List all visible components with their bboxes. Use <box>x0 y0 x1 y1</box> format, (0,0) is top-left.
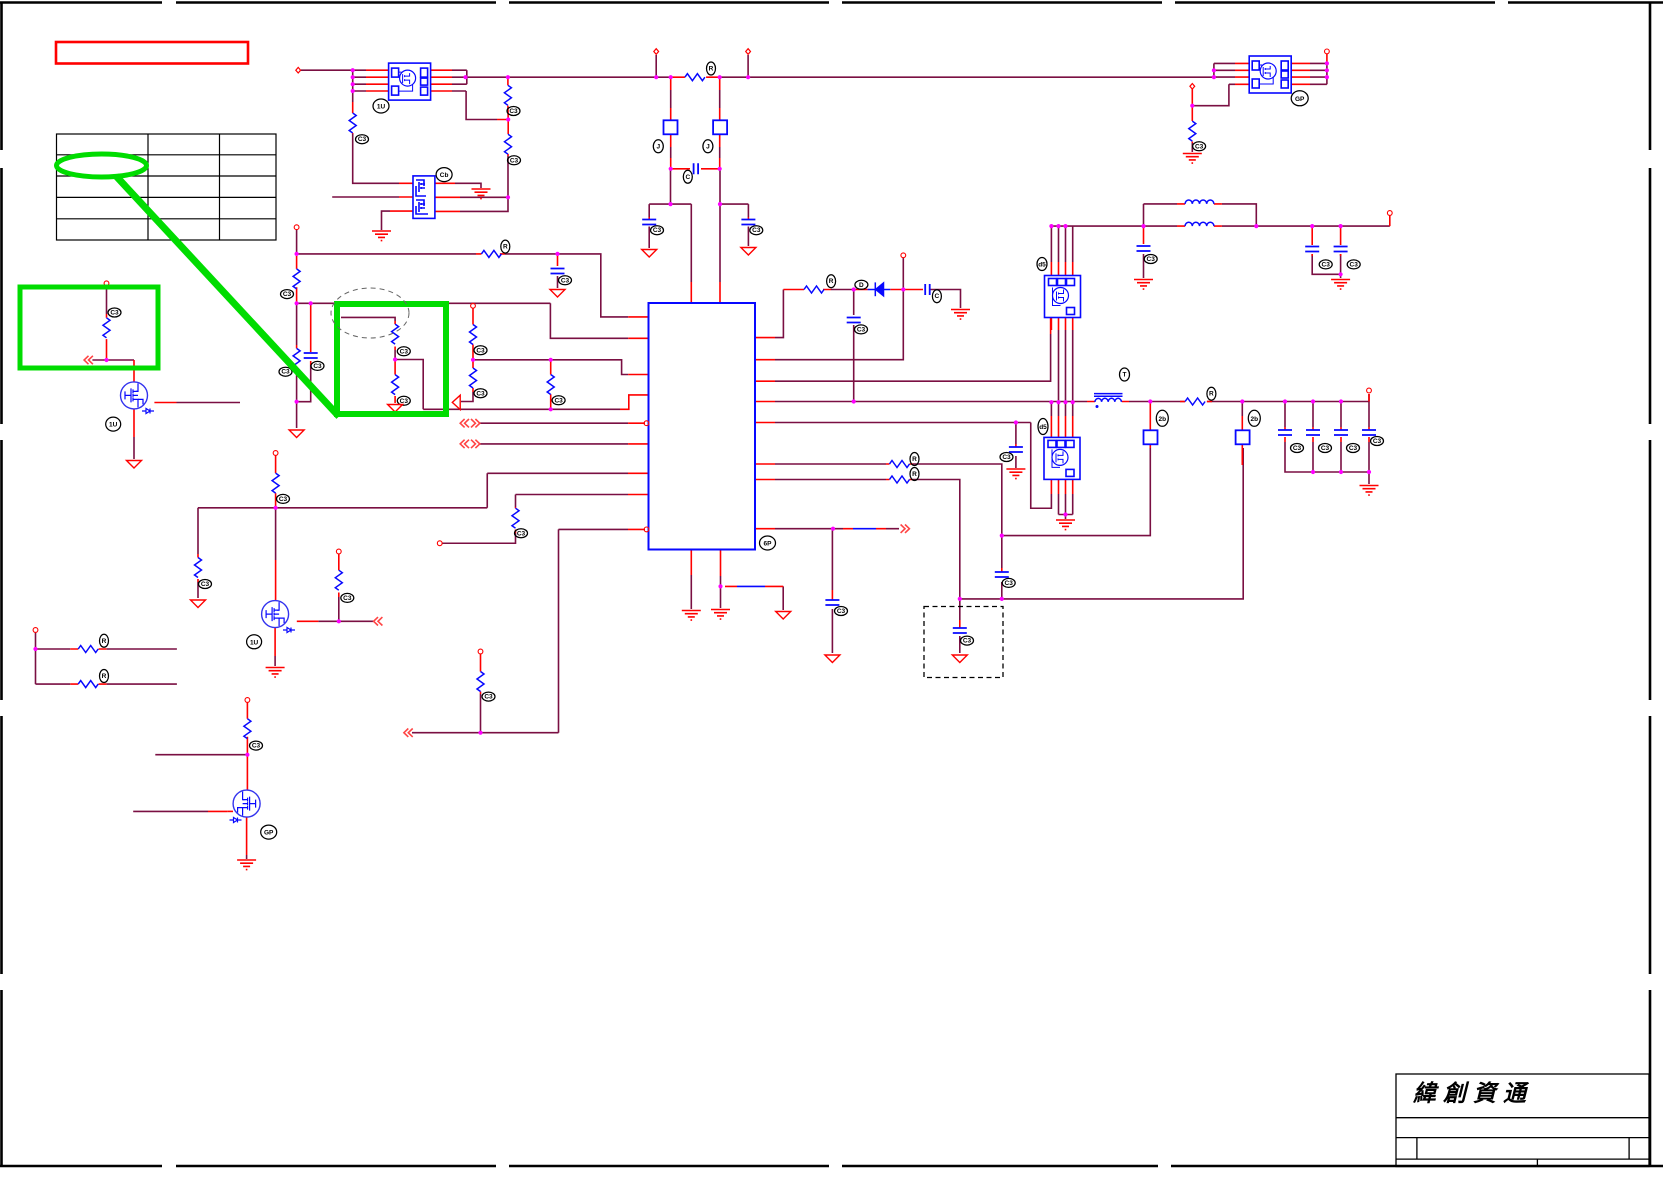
resistor R21 <box>78 681 98 688</box>
wire box5 left tie column <box>1213 63 1215 77</box>
junction (480.5,732.7) <box>478 731 482 735</box>
wire IC bottom pin1 to ground <box>690 575 692 609</box>
wire H9 row 732.7 <box>412 732 559 734</box>
resistor R17 <box>335 570 342 590</box>
capacitor C14 <box>304 353 318 358</box>
red stub pin L9 <box>628 528 645 530</box>
svg-text:C3: C3 <box>857 326 866 333</box>
junction (557.5,253.9) <box>555 252 559 256</box>
junction (275.6,507.8) <box>274 506 278 510</box>
red stubs caps 649/748 <box>649 217 748 219</box>
wire L2 bottom row <box>1076 225 1390 227</box>
red stubs box5 right <box>1292 63 1311 84</box>
junction (507.9,77.2) <box>506 75 510 79</box>
junction (35.5,649) <box>33 647 37 651</box>
wire box5 right tie column <box>1326 63 1328 84</box>
wire C5 column <box>1143 254 1145 278</box>
resistor R26 <box>103 318 110 338</box>
wire bus red-maroon below wireA <box>1051 402 1072 416</box>
IC U1 main controller <box>649 303 756 550</box>
red stub into box2 left <box>390 183 413 211</box>
svg-text:C3: C3 <box>1349 445 1358 452</box>
resistor R24 <box>890 476 910 483</box>
wire H7 row 473.3 <box>487 473 628 508</box>
red stubs 508 resistor chain <box>497 77 508 156</box>
jumper J3 <box>1144 430 1158 444</box>
junction (1326.9,70.3) <box>1325 68 1329 72</box>
wire A main row 401.5 <box>775 401 1087 403</box>
red stubs R_r col <box>338 554 340 597</box>
resistor R11 <box>547 375 554 395</box>
red stubs col 473 <box>472 309 474 393</box>
red stub Q2 source <box>274 628 276 656</box>
wire C4 column <box>1015 423 1017 469</box>
ground triangle C9 dashed box <box>952 655 967 663</box>
terminal circle R22 left <box>437 541 442 546</box>
svg-text:C3: C3 <box>510 157 519 164</box>
wire col 296.6 between resistors <box>296 303 298 345</box>
ground earth under box2 left <box>372 231 391 241</box>
wire row4 jog down to resistor column <box>466 91 497 120</box>
resistor R10 <box>293 348 300 368</box>
junction (247.4,754.7) <box>245 753 249 757</box>
red stub IC pin L8 <box>628 494 649 496</box>
red stub IC pin R4 <box>755 401 775 403</box>
capacitor C10 <box>825 600 839 605</box>
body diode Q2 <box>283 628 295 633</box>
svg-text:C3: C3 <box>476 390 485 397</box>
red stubs R_s col <box>275 456 277 508</box>
svg-text:C3: C3 <box>837 608 846 615</box>
junction (1312.2,226.1) <box>1310 224 1314 228</box>
ground earth IC bottom pin1 <box>682 611 701 621</box>
wire square1 column long down <box>1002 448 1151 536</box>
svg-text:C3: C3 <box>201 581 210 588</box>
wire box2 right row1 <box>460 196 508 198</box>
ground triangle R15 <box>191 600 206 608</box>
blue wire segments <box>737 290 890 587</box>
svg-text:C3: C3 <box>110 310 119 317</box>
label Q1 <box>106 417 121 431</box>
junction (1369,472) <box>1367 470 1371 474</box>
junction (296.6,401.7) <box>295 400 299 404</box>
wire cap 748 column <box>747 204 749 246</box>
red stubs R_t col <box>480 654 482 694</box>
junction (833,528.7) <box>831 527 835 531</box>
red stubs box1 right <box>431 70 452 91</box>
wire jumper1 below <box>670 147 672 158</box>
red stub IC pin R1 <box>755 337 775 339</box>
red stubs jumper columns <box>670 77 672 169</box>
label Q6 <box>436 168 452 182</box>
wire box2 right top to ground <box>455 183 481 188</box>
junction (903.3,289.5) <box>901 287 905 291</box>
red stubs R_k col <box>550 360 552 402</box>
wire jumper2 column mid <box>719 90 721 108</box>
resistor R14 <box>1185 398 1205 405</box>
junction (670.7,77.2) <box>669 75 673 79</box>
resistor R19 <box>477 672 484 692</box>
label Q3 <box>261 825 277 839</box>
red stub terminal 1389 <box>1389 216 1391 227</box>
terminal circle R19 top <box>478 649 483 654</box>
terminal circle green box1 <box>104 281 109 286</box>
capacitor C9 <box>953 628 967 633</box>
junction (1001.8,598.9) <box>1000 597 1004 601</box>
red stubs IC bottom pins <box>691 550 720 577</box>
ground earth right of box2 <box>472 189 491 199</box>
transistor Q3 <box>233 790 260 817</box>
wire C8 column <box>1001 536 1003 599</box>
red stub IC pin R3 <box>755 380 775 382</box>
wire R_d column to ground <box>1191 143 1193 152</box>
junction (465.5,77.2) <box>463 75 467 79</box>
wire box5 row4 jog <box>1192 84 1229 105</box>
wire col 198 to resistor and gnd <box>197 508 199 598</box>
wire cap pair row 274.3 <box>1312 254 1340 278</box>
red stubs col 310.7 <box>310 303 312 365</box>
ground triangle C12 <box>642 250 657 258</box>
junction (719.7,168.8) <box>718 167 722 171</box>
svg-text:R: R <box>102 638 107 645</box>
terminal circle R16 top <box>273 451 278 456</box>
junction (1313,401.5) <box>1311 399 1315 403</box>
red stubs box2 right <box>435 183 460 211</box>
wire R_r column <box>338 597 340 621</box>
resistor R16 <box>272 473 279 493</box>
resistor R6 <box>481 250 501 257</box>
ground earth caps bank <box>1360 486 1379 496</box>
wire green box1 junction row <box>92 359 134 361</box>
resistor R3 <box>505 134 512 154</box>
svg-text:2b: 2b <box>1159 416 1167 423</box>
wire green box1 column <box>106 286 108 314</box>
svg-text:d5: d5 <box>1038 262 1046 269</box>
wire jumper1 column to row 204 <box>670 169 672 204</box>
junction (853.7,289.5) <box>852 287 856 291</box>
wire caps top bus corners <box>1285 402 1369 428</box>
terminal diamond top-left <box>296 67 301 73</box>
junction (1001.8,535.6) <box>1000 534 1004 538</box>
wire pin R3 to bus1 <box>775 334 1051 381</box>
transistor Q7 package (box3) <box>1045 276 1081 318</box>
resistor R7 <box>470 325 477 345</box>
wire diode row right to ground <box>930 290 961 309</box>
transistor Q9 package (box5) <box>1249 56 1291 93</box>
terminal circle caps bank <box>1367 388 1372 393</box>
capacitor C11 series <box>694 163 699 174</box>
junction (1065.5,402.2) <box>1063 400 1067 404</box>
capacitor C4 <box>1009 447 1023 452</box>
maroon wires <box>36 55 1390 859</box>
junction (508.2,119.5) <box>506 117 510 121</box>
resistor R9 <box>293 269 300 289</box>
wire R9 terminal column <box>296 230 298 254</box>
svg-text:R: R <box>503 244 508 251</box>
junction (1256.3,226.1) <box>1254 224 1258 228</box>
wire 903 column to pin R2 <box>775 290 903 360</box>
inductor L1 <box>1185 200 1214 204</box>
wire bottom-left rows <box>36 632 177 684</box>
svg-text:R: R <box>829 278 834 285</box>
junction (1213.9,70.3) <box>1212 68 1216 72</box>
ground earth diode row <box>951 310 970 320</box>
terminal diamond H1 a <box>654 49 659 55</box>
wire box1 left pin rows <box>353 70 366 91</box>
junction (1150.3,401.5) <box>1148 399 1152 403</box>
red stubs port rows <box>628 423 648 444</box>
junction (550.7,409.3) <box>549 407 553 411</box>
wire L1 top row <box>1144 204 1257 226</box>
capacitor C16 <box>1306 430 1320 435</box>
svg-text:C3: C3 <box>281 369 290 376</box>
blue seg IC bottom link <box>737 585 765 587</box>
wire box2 left mid long <box>332 196 399 198</box>
wire Q2 drain column <box>275 508 277 560</box>
wire H4 row 409.3 to IC pin L4 <box>423 408 620 410</box>
wire bus verticals above box3 <box>1051 226 1072 262</box>
junction (656.2,77.2) <box>654 75 658 79</box>
svg-text:C: C <box>935 293 940 300</box>
red stub IC pin R2 <box>755 359 775 361</box>
capacitor C12 <box>642 220 656 225</box>
ground triangle C10 <box>825 655 840 663</box>
wire pin R7 row 479.5 <box>775 480 960 599</box>
resistor R4 <box>685 74 705 81</box>
inductor L2 <box>1185 222 1214 226</box>
body diode Q1 <box>142 409 154 414</box>
wire col 296.6 to gnd triangle <box>296 370 298 428</box>
wire Q2 source to ground <box>274 656 276 666</box>
svg-text:R: R <box>912 456 917 463</box>
transistor Q1 <box>121 382 148 409</box>
wire R_t col maroon <box>480 694 482 733</box>
transistor Q5 package (box1) <box>389 63 431 100</box>
junction (1340.6,274.3) <box>1339 272 1343 276</box>
port left-arrow Q2 row <box>374 617 383 625</box>
red stub q3 blue gate <box>227 810 233 812</box>
red stubs green box2 <box>394 321 396 403</box>
resistor R22 <box>512 508 519 528</box>
red stubs C4 C8 C9 C10 <box>832 444 1016 628</box>
svg-text:J: J <box>656 143 660 150</box>
red stubs H1 resistor <box>671 76 720 78</box>
red stubs box1 left <box>366 70 389 91</box>
junction (1313,472) <box>1311 470 1315 474</box>
transistor Q2 <box>262 601 289 628</box>
svg-text:C3: C3 <box>1373 438 1382 445</box>
svg-text:C3: C3 <box>1293 445 1302 452</box>
junction (550.7,359.8) <box>549 358 553 362</box>
resistor R13 <box>392 375 399 395</box>
dashed box annotation <box>924 607 1003 678</box>
svg-text:C3: C3 <box>509 108 518 115</box>
junction (106.5,360) <box>104 358 108 362</box>
wire Q3 drain row <box>155 754 247 756</box>
wire box5 left rows <box>1214 63 1235 84</box>
wire Q3 gate row <box>133 810 208 812</box>
wire top-left terminal to box1 column <box>301 69 353 71</box>
svg-text:C3: C3 <box>400 398 409 405</box>
junction (670.5,204.1) <box>668 202 672 206</box>
pin circle IC L9 <box>644 527 649 532</box>
junction (1242.3,401.5) <box>1240 399 1244 403</box>
svg-text:C: C <box>685 174 690 181</box>
red wire segments / pin stubs <box>70 54 1390 855</box>
wire cap 649 column <box>648 204 650 248</box>
red stubs 4 caps top/bottom <box>1285 427 1369 442</box>
red stub C1 <box>557 254 559 266</box>
svg-text:C3: C3 <box>561 277 570 284</box>
red stubs Q3 <box>208 703 247 856</box>
wire box1 right rows <box>452 70 467 91</box>
junction (1058.5,226.1) <box>1056 224 1060 228</box>
svg-text:C3: C3 <box>1350 261 1359 268</box>
wire L row left column <box>1143 204 1145 226</box>
svg-text:C3: C3 <box>358 136 367 143</box>
svg-text:C3: C3 <box>476 347 485 354</box>
terminal circle Q3 top <box>245 698 250 703</box>
junction (1072.7,402.2) <box>1071 400 1075 404</box>
port right-arrow pin R8 net <box>901 525 910 533</box>
ground triangle col 296 <box>289 430 304 438</box>
red stubs bottom-left resistor rows <box>70 649 106 684</box>
red segs bus stubs near box3 box4 <box>1051 262 1072 276</box>
capacitor C15 <box>1278 430 1292 435</box>
capacitor C5 <box>1137 246 1151 251</box>
callout leader line <box>116 176 339 417</box>
wire C1 column <box>557 276 559 288</box>
wire port row 423 <box>479 422 629 424</box>
ground earth IC bottom pin2 <box>711 610 730 620</box>
wire C9 column in dashed box <box>959 599 961 653</box>
label Q7 <box>1037 258 1047 271</box>
wire A after transformer <box>1129 394 1369 402</box>
svg-text:R: R <box>709 66 714 73</box>
ground earth box5 resistor <box>1183 154 1202 164</box>
junction (720,204.1) <box>718 202 722 206</box>
red stub Q2 drain <box>275 560 277 601</box>
svg-text:C3: C3 <box>517 530 526 537</box>
junction (853.7,401.5) <box>852 399 856 403</box>
terminal circle bottom-left rows <box>33 628 38 633</box>
resistor R1 <box>349 113 356 133</box>
label Q2 <box>247 635 262 649</box>
red stubs IC pin R6,R7 <box>755 464 913 480</box>
capacitor C2 <box>847 318 861 323</box>
ground triangle Q1 source <box>127 461 142 469</box>
wire box2 left bottom to ground <box>382 211 391 230</box>
capacitor C18 <box>1362 430 1376 435</box>
resistor R12 <box>392 324 399 344</box>
wire bus verticals box3-box4 <box>1059 330 1073 402</box>
svg-text:T: T <box>1123 372 1127 379</box>
red stub IC pin L7 <box>628 472 649 474</box>
highlight ellipse on table <box>57 154 147 177</box>
wire green box2 internal top <box>341 317 395 321</box>
resistor R15 <box>195 558 202 578</box>
ground earth Q3 source <box>237 860 256 870</box>
red stub IC pin R5 <box>755 422 775 424</box>
wire terminal diamonds above H1 <box>656 55 748 77</box>
wire Q3 source tail <box>246 855 248 859</box>
ground earth C4 <box>1006 469 1025 479</box>
red segs around blue on R8 wire <box>843 528 886 530</box>
wire H5 row 303.3 <box>297 302 551 304</box>
wire transformer row left <box>1128 401 1130 404</box>
svg-text:C3: C3 <box>1195 143 1204 150</box>
port left-arrow H9 row <box>404 729 413 737</box>
junction (310.7,303.3) <box>309 301 313 305</box>
svg-text:C3: C3 <box>1147 256 1156 263</box>
wire H3 row 359.8 to IC pin L3 <box>473 360 628 375</box>
wire square2 column <box>1241 402 1243 416</box>
terminal circle R9 top <box>294 225 299 230</box>
red stubs wireA transformer <box>1087 401 1129 403</box>
junction (1015.9,422.5) <box>1014 420 1018 424</box>
svg-text:C3: C3 <box>1005 580 1014 587</box>
resistor R2 <box>504 85 511 105</box>
wire jumper1 column mid <box>670 90 672 108</box>
junction (1143.5,226.1) <box>1141 224 1145 228</box>
wire pin L8 row 494.5 <box>516 495 629 508</box>
wire row 204 horizontals <box>649 203 748 205</box>
svg-text:1U: 1U <box>109 422 118 429</box>
svg-text:C3: C3 <box>279 496 288 503</box>
wire pin R6 row 464 <box>775 464 1002 536</box>
ground triangle C1 <box>550 290 565 298</box>
red stub IC pin R8 <box>755 528 775 530</box>
blue seg net-name wire at pin R8 <box>853 528 876 530</box>
terminal circle col 473 <box>471 303 476 308</box>
wire caps bottom bus <box>1285 442 1369 484</box>
svg-text:C3: C3 <box>963 638 972 645</box>
port left-arrow green box1 <box>84 356 93 364</box>
ground earth Q2 source <box>266 668 285 678</box>
resistor R8 <box>470 368 477 388</box>
wire R_w bottom to terminal <box>442 533 516 543</box>
red stubs R_w col <box>515 507 517 533</box>
red stubs green box1 <box>106 314 108 360</box>
wire right jog rows1-3 <box>466 70 468 84</box>
ground earth bus bottom <box>1056 520 1075 530</box>
junction (296.6,253.9) <box>295 252 299 256</box>
red stubs square columns <box>1150 402 1242 465</box>
wire main top horizontal H1 <box>467 76 1214 78</box>
svg-text:C3: C3 <box>343 595 352 602</box>
wire H2 row 253.9 to IC pin L1 <box>297 254 629 317</box>
junction (1192.3,105.7) <box>1190 104 1194 108</box>
wire terminal 903 column <box>902 258 904 290</box>
junction (1340.6,226.1) <box>1339 224 1343 228</box>
port pair row 423 <box>460 419 469 427</box>
junction (1051.4,402.2) <box>1049 400 1053 404</box>
red segs cap row 168.8 <box>671 168 720 170</box>
wire Q2 gate row to port <box>318 620 374 622</box>
wire pin L9 row 529.4 down and left <box>559 529 629 732</box>
svg-text:C3: C3 <box>1322 261 1331 268</box>
svg-text:緯創資通: 緯創資通 <box>1412 1081 1533 1106</box>
junction (473,359.8) <box>471 358 475 362</box>
capacitor C8 <box>995 572 1009 577</box>
svg-text:C3: C3 <box>400 348 409 355</box>
junction (1326.9,77.1) <box>1325 75 1329 79</box>
svg-text:R: R <box>1209 391 1214 398</box>
wire Q1 gate row <box>177 402 241 404</box>
capacitor C13 <box>741 220 755 225</box>
junction (352.7,84.2) <box>351 82 355 86</box>
svg-text:R: R <box>912 471 917 478</box>
